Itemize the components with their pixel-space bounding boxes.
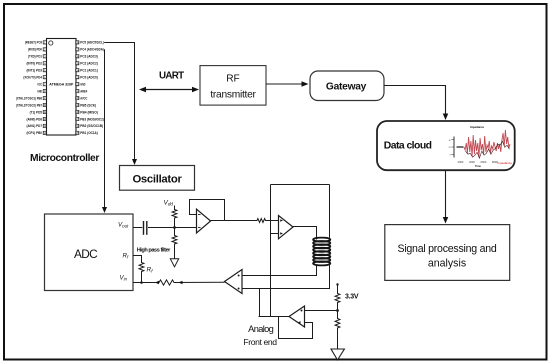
svg-text:analysis: analysis <box>428 258 466 270</box>
svg-text:(INT1) PD3: (INT1) PD3 <box>27 69 43 73</box>
svg-text:(XTAL2/TOSC2) PB7: (XTAL2/TOSC2) PB7 <box>16 103 42 107</box>
svg-text:PB5 (SCK): PB5 (SCK) <box>80 103 96 107</box>
svg-text:(XCK/T0) PD4: (XCK/T0) PD4 <box>23 76 42 80</box>
svg-text:Rf: Rf <box>147 267 154 274</box>
svg-text:RF: RF <box>226 74 240 85</box>
svg-text:Microcontroller: Microcontroller <box>30 153 99 164</box>
svg-text:Time: Time <box>475 164 482 168</box>
svg-text:(RXD) PD0: (RXD) PD0 <box>28 48 42 52</box>
svg-text:GND: GND <box>80 83 86 87</box>
svg-text:(TXD) PD1: (TXD) PD1 <box>28 55 42 59</box>
svg-text:(T1) PD5: (T1) PD5 <box>30 110 43 114</box>
svg-text:PC3 (ADC3): PC3 (ADC3) <box>80 55 98 59</box>
svg-text:Vdd: Vdd <box>164 200 174 207</box>
svg-text:PB1 (OC1A): PB1 (OC1A) <box>80 131 98 135</box>
svg-text:PC0 (ADC0): PC0 (ADC0) <box>80 76 98 80</box>
svg-text:(INT0) PD2: (INT0) PD2 <box>27 62 43 66</box>
svg-text:AREF: AREF <box>80 89 87 93</box>
svg-text:ADC: ADC <box>74 247 98 261</box>
svg-text:Impedance: Impedance <box>470 125 484 129</box>
svg-text:Data cloud: Data cloud <box>384 141 432 152</box>
svg-text:AVCC: AVCC <box>80 96 87 100</box>
svg-text:(ICP1) PB0: (ICP1) PB0 <box>27 131 43 135</box>
svg-text:VCC: VCC <box>37 83 42 87</box>
svg-text:GND: GND <box>37 89 42 93</box>
svg-text:UART: UART <box>159 71 184 82</box>
svg-text:ATMEGA 328P: ATMEGA 328P <box>49 83 74 87</box>
svg-text:(AIN0) PD6: (AIN0) PD6 <box>27 117 43 121</box>
svg-text:Front end: Front end <box>243 337 277 347</box>
svg-text:PC1 (ADC1): PC1 (ADC1) <box>80 69 98 73</box>
svg-text:2000: 2000 <box>458 160 464 164</box>
svg-text:PB4 (MISO): PB4 (MISO) <box>80 110 98 114</box>
svg-text:PC2 (ADC2): PC2 (ADC2) <box>80 62 98 66</box>
svg-text:PB2 (SS/OC1B): PB2 (SS/OC1B) <box>80 124 103 128</box>
svg-text:PB3 (MOSI/OC2): PB3 (MOSI/OC2) <box>80 117 104 121</box>
svg-text:4000: 4000 <box>469 160 475 164</box>
svg-text:PC4 (ADC4/SDA): PC4 (ADC4/SDA) <box>80 48 104 52</box>
svg-text:Signal processing and: Signal processing and <box>398 243 497 255</box>
svg-text:(AIN1) PD7: (AIN1) PD7 <box>27 124 43 128</box>
svg-text:3.3V: 3.3V <box>345 294 359 301</box>
svg-text:High pass filter: High pass filter <box>137 248 171 254</box>
svg-text:Analog: Analog <box>248 324 274 334</box>
svg-text:Gateway: Gateway <box>326 82 367 93</box>
svg-text:Oscillator: Oscillator <box>132 174 182 186</box>
svg-text:(XTAL1/TOSC1) PB6: (XTAL1/TOSC1) PB6 <box>16 96 42 100</box>
svg-text:transmitter: transmitter <box>210 90 256 101</box>
svg-text:PC5 (ADC5/SCL): PC5 (ADC5/SCL) <box>80 41 104 45</box>
svg-text:6000: 6000 <box>481 160 487 164</box>
svg-text:(RESET) PC6: (RESET) PC6 <box>25 41 42 45</box>
svg-text:Impedance: Impedance <box>498 161 513 165</box>
